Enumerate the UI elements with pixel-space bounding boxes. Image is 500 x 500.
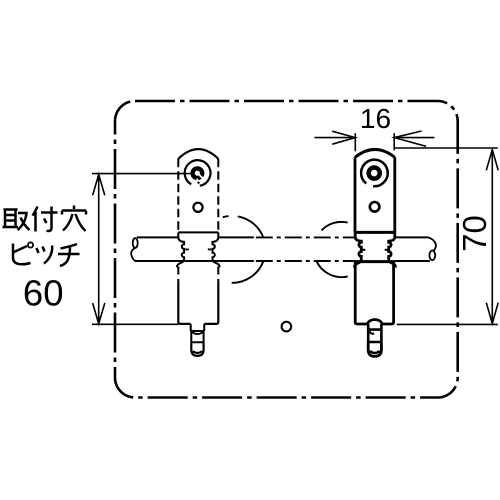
pipe top edge left visible segment [137,236,179,238]
kanji 取 [3,210,30,231]
left nozzle collar [191,324,205,331]
left fixture clamp profile left [177,232,184,267]
svg-text:70: 70 [456,215,493,252]
dim60 line [98,175,100,324]
kanji 付 [33,207,58,232]
right nozzle shaft [368,330,381,342]
dim70 top arrow [486,150,498,171]
dim70 bottom extension line [397,323,498,325]
right fixture small circle [370,202,380,212]
dim60 top extension line [92,173,190,175]
dim60 bottom arrow [93,303,105,324]
left fixture hidden pipe tick left [185,248,189,250]
frame: mounting plate outline (chain line rounded rect) [115,101,458,398]
dim70 line [491,150,493,324]
pipe bottom edge right visible segment [395,260,430,262]
dim16 left arrow [332,131,355,144]
pipe top edge right visible segment [395,236,429,238]
pipe left S-break loop [133,238,138,248]
left fixture small circle [193,203,202,212]
left fixture lower side right dashed part [217,267,219,283]
left fixture donut notch [199,175,203,179]
left nozzle collar ellipse arc [191,331,204,334]
pipe top edge hidden dashed [256,236,355,238]
left fixture clamp top line [178,231,218,233]
dim70 bottom arrow [486,303,498,324]
left nozzle tip [191,342,203,356]
right fixture hidden pipe tick left [362,249,365,251]
pipe left S-break arc [131,248,135,261]
right swivel circle arc top [322,222,348,230]
right nozzle collar [368,324,381,330]
left fixture clamp profile right [213,232,220,267]
dim60 top arrow [93,175,105,196]
left fixture hidden pipe tick right [208,248,212,250]
right nozzle tip [368,342,381,356]
left fixture screw hole thread arc [185,160,211,186]
dim16 left extension line [354,133,356,151]
pipe bottom edge solid [135,260,254,262]
pipe right S-break loop [429,251,435,261]
kanji 穴 [62,206,86,232]
right fixture screw hole thread arc [361,160,388,187]
right fixture upper side right [393,157,396,232]
left fixture lower body left [178,283,190,324]
right nozzle curl [370,331,375,334]
right fixture clamp profile right [389,232,396,267]
right nozzle tip inner arc [370,351,380,353]
left fixture small dot under donut [197,182,199,184]
left fixture upper side left (dashed) [177,159,179,233]
left nozzle tip inner arc [193,351,202,353]
right fixture upper side left [354,157,357,232]
right fixture lower body right [382,262,393,324]
dim70 top extension line [394,147,498,149]
left fixture upper side right (dashed) [217,159,219,233]
dim16 right arrow [394,131,426,146]
dim16 line right segment [394,137,434,139]
katakana ピ [13,242,33,264]
left fixture screw donut [193,168,203,178]
right fixture hidden pipe tick right [385,249,388,251]
left fixture lower side left dashed part [177,267,179,283]
svg-text:60: 60 [23,273,64,314]
dim60 bottom extension line [92,323,178,325]
pipe bottom edge hidden dashed [256,260,355,262]
left swivel circle arc bottom [232,261,264,283]
pipe top edge between fixtures solid part [218,236,254,238]
right nozzle dome [367,319,382,324]
katakana チ [58,244,80,266]
svg-text:16: 16 [360,103,391,134]
right fixture lower body left [355,262,367,324]
right fixture clamp top line [355,231,395,234]
left swivel circle arc small top [223,216,229,217]
pipe right S-break arc [429,237,436,250]
right swivel circle arc bottom [317,261,348,277]
left nozzle shaft [191,331,203,342]
left swivel circle arc top [238,216,263,237]
bottom mounting hole circle [282,322,292,332]
right fixture clamp profile left [354,232,361,267]
katakana ッ [37,246,53,264]
left fixture top arc [178,149,218,159]
right fixture clamp bottom line [355,260,395,263]
right fixture screw donut [369,168,380,179]
dim16 right extension line [393,133,395,150]
left fixture lower body right [204,283,218,324]
right fixture top arc [355,149,395,157]
dim16 line left segment [315,137,356,139]
